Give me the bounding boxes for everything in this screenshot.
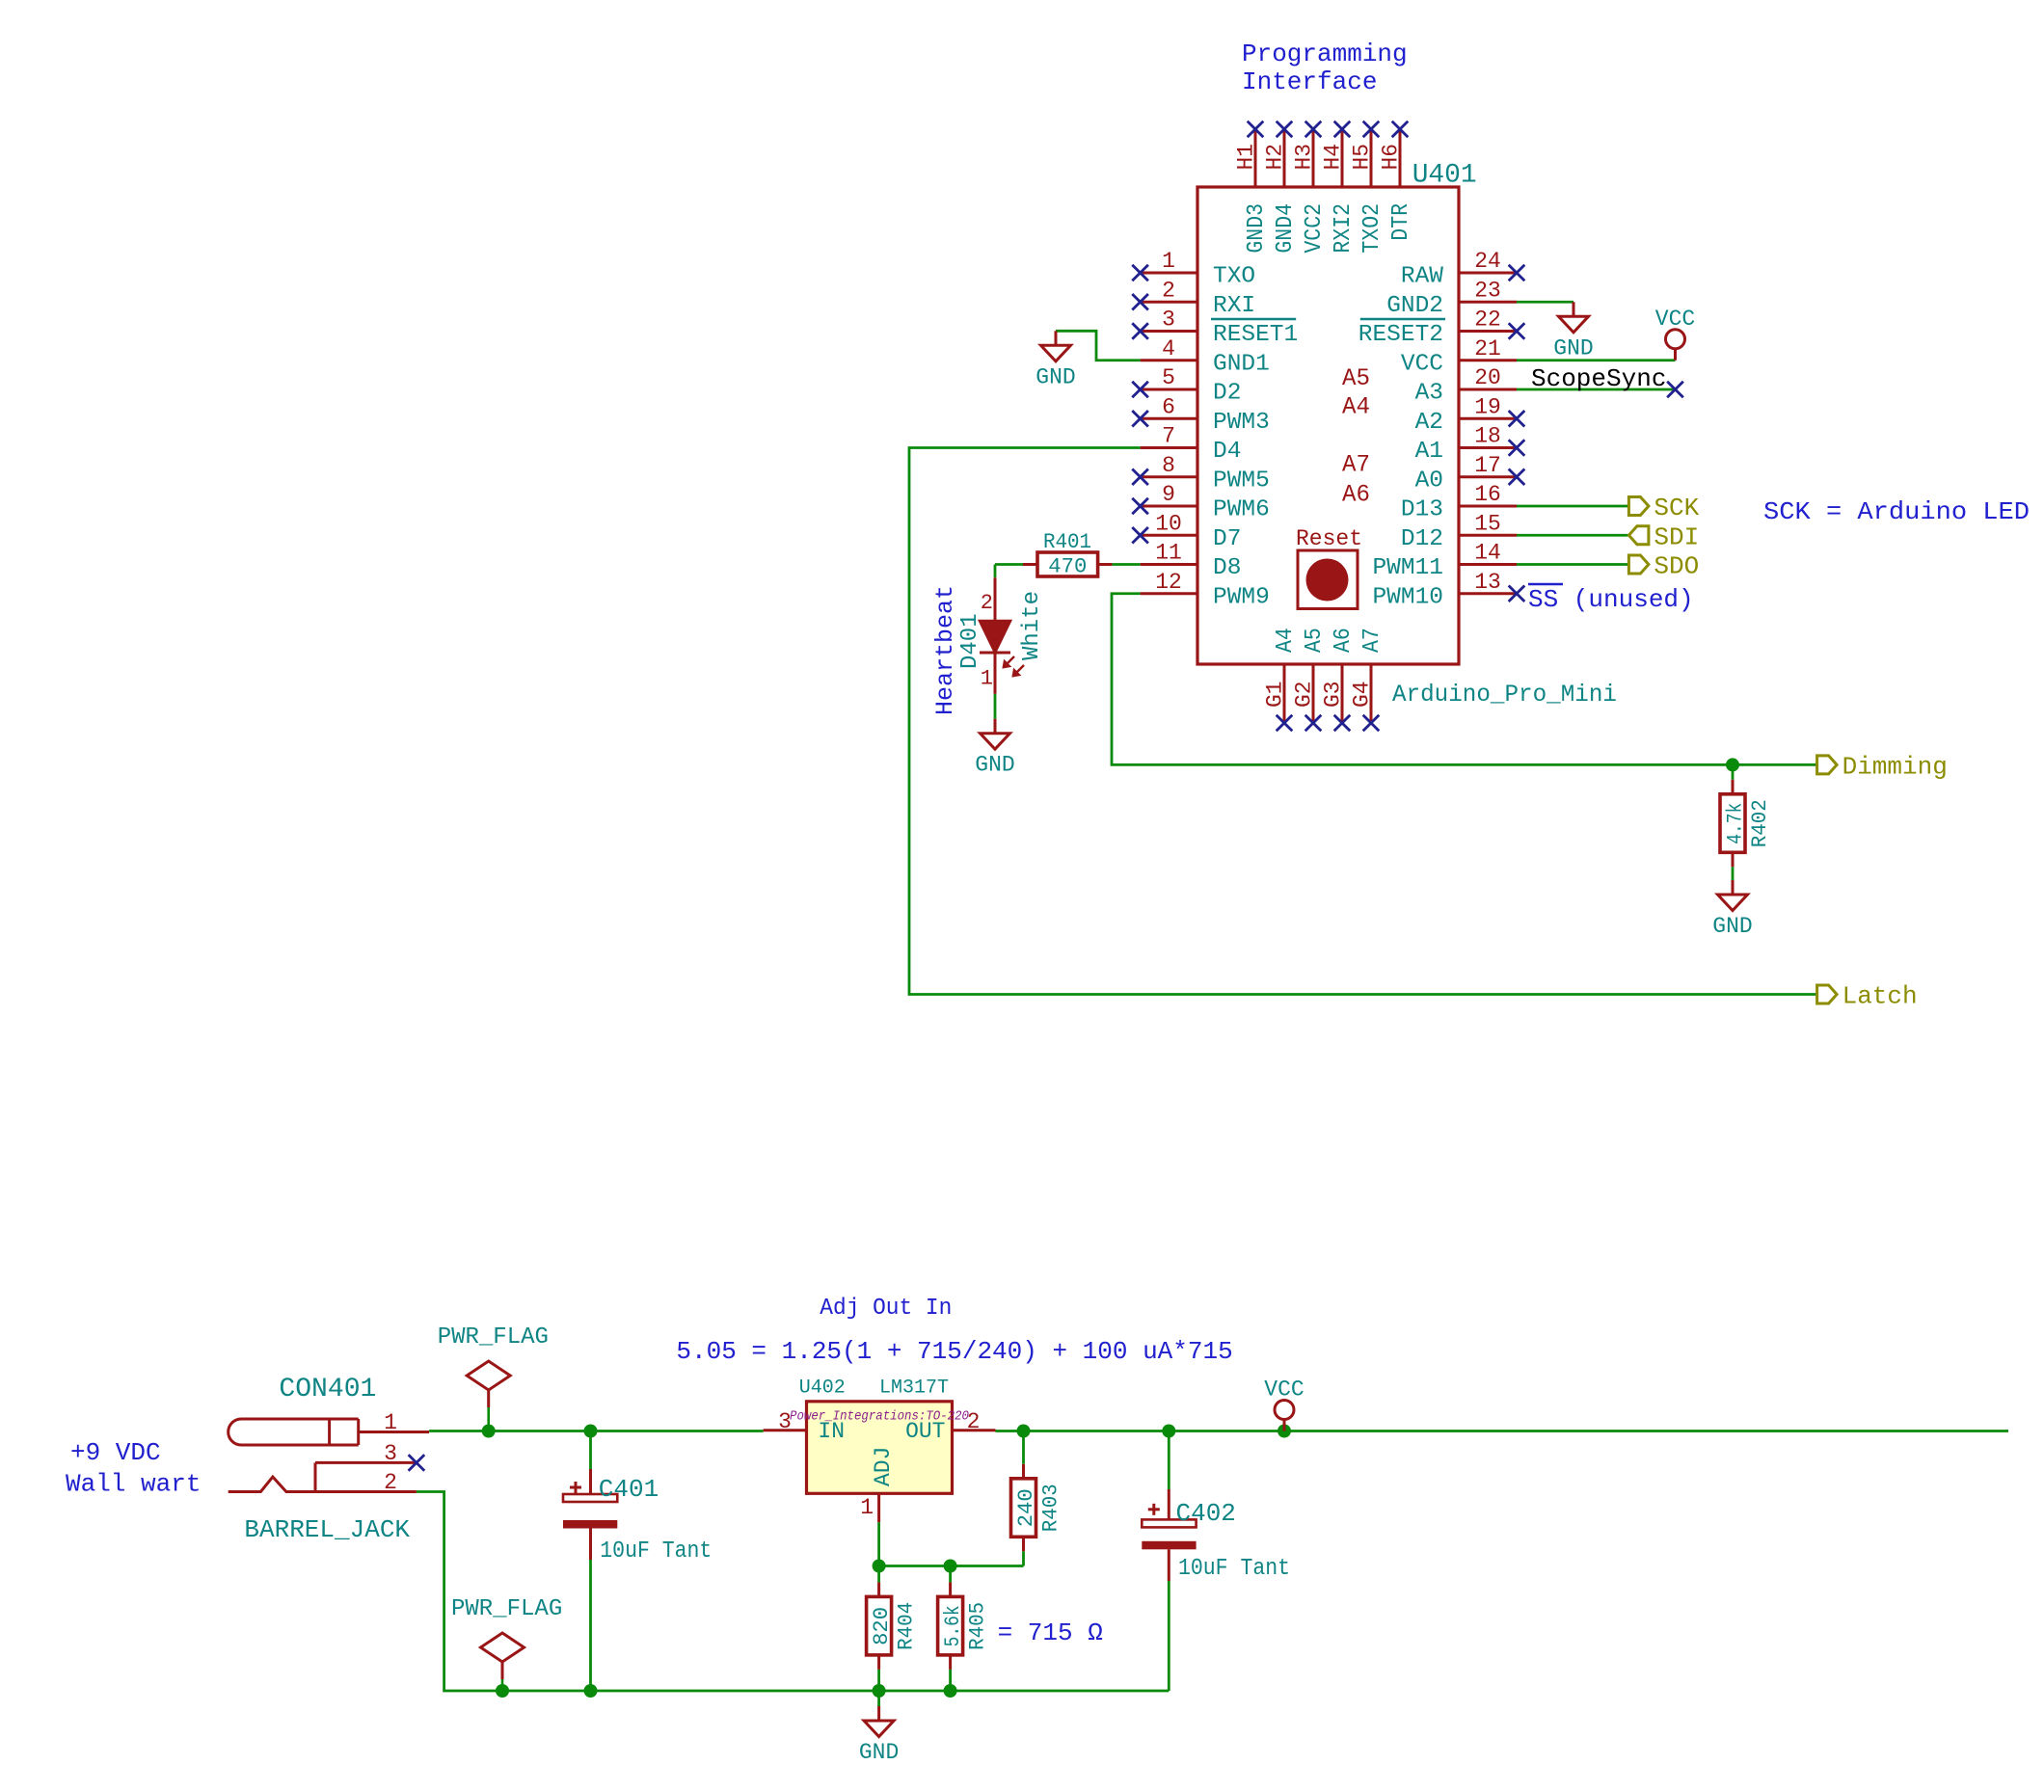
VCC power symbol top bbox=[1655, 307, 1695, 361]
U401 pin 3 RESET1 (left) bbox=[1132, 308, 1298, 349]
svg-text:DTR: DTR bbox=[1388, 203, 1414, 241]
junction at R403 bbox=[1017, 1425, 1031, 1438]
svg-text:8: 8 bbox=[1162, 453, 1175, 478]
svg-text:G1: G1 bbox=[1263, 682, 1288, 709]
svg-text:A1: A1 bbox=[1415, 439, 1443, 465]
svg-text:ADJ: ADJ bbox=[871, 1447, 896, 1486]
svg-text:GND2: GND2 bbox=[1386, 293, 1443, 319]
svg-text:PWR_FLAG: PWR_FLAG bbox=[451, 1596, 562, 1622]
svg-text:A0: A0 bbox=[1415, 468, 1443, 494]
svg-text:SDO: SDO bbox=[1654, 552, 1699, 581]
U401 pin 16 D13 (right) bbox=[1401, 482, 1517, 523]
U401 pin 10 D7 (left) bbox=[1132, 511, 1241, 552]
svg-text:VCC: VCC bbox=[1264, 1377, 1304, 1403]
U401 pin 22 RESET2 (right) bbox=[1358, 308, 1525, 349]
junction at C401 ground bbox=[584, 1684, 598, 1698]
svg-text:10: 10 bbox=[1155, 511, 1182, 536]
wire ground rail to ground symbol bbox=[877, 1691, 880, 1706]
svg-text:VCC2: VCC2 bbox=[1302, 203, 1328, 254]
U401 pin 15 D12 (right) bbox=[1401, 511, 1517, 552]
wire net ScopeSync from pin 20 bbox=[1517, 388, 1676, 391]
junction ADJ node at R404 bbox=[873, 1560, 886, 1573]
svg-text:Latch: Latch bbox=[1842, 982, 1918, 1011]
junction at R405 ground bbox=[944, 1684, 957, 1698]
ground symbol at U401 pin 4 bbox=[1035, 331, 1075, 389]
svg-text:1: 1 bbox=[981, 667, 993, 691]
wire pin21 to VCC bbox=[1517, 359, 1676, 361]
svg-text:GND: GND bbox=[859, 1740, 899, 1765]
resistor R402 4.7k bbox=[1720, 780, 1772, 868]
svg-text:SDI: SDI bbox=[1654, 522, 1699, 551]
svg-text:11: 11 bbox=[1155, 541, 1182, 566]
U401 interior pad numbers A5 A4 A7 A6 bbox=[1342, 364, 1370, 509]
wire pin15 D12 to SDI bbox=[1517, 534, 1628, 537]
svg-text:H3: H3 bbox=[1292, 144, 1317, 171]
svg-text:820: 820 bbox=[870, 1607, 894, 1645]
svg-text:1: 1 bbox=[1162, 249, 1175, 274]
svg-text:BARREL_JACK: BARREL_JACK bbox=[244, 1515, 410, 1544]
svg-text:Heartbeat: Heartbeat bbox=[931, 585, 959, 715]
svg-text:3: 3 bbox=[778, 1409, 792, 1434]
svg-text:PWR_FLAG: PWR_FLAG bbox=[438, 1324, 549, 1351]
svg-text:D13: D13 bbox=[1401, 497, 1443, 523]
svg-text:10uF Tant: 10uF Tant bbox=[1178, 1556, 1290, 1582]
wire R401 to LED corner bbox=[995, 565, 1023, 578]
junction at PWR_FLAG ground bbox=[496, 1684, 509, 1698]
U401 pin 21 VCC (right) bbox=[1401, 336, 1517, 378]
svg-text:R404: R404 bbox=[895, 1602, 919, 1650]
U401 pin 8 PWM5 (left) bbox=[1132, 453, 1270, 495]
junction at R402 / Dimming bbox=[1726, 758, 1739, 771]
U401 pin G3 A6 (bottom) with no-connect bbox=[1321, 628, 1358, 731]
note: SCK = Arduino LED bbox=[1763, 497, 2030, 526]
svg-text:SCK: SCK bbox=[1654, 494, 1699, 522]
U401 pin 24 RAW (right) bbox=[1401, 249, 1524, 290]
svg-text:PWM5: PWM5 bbox=[1213, 468, 1270, 494]
junction at PWR_FLAG VIN bbox=[482, 1425, 496, 1438]
svg-text:6: 6 bbox=[1162, 394, 1175, 419]
svg-text:= 715 Ω: = 715 Ω bbox=[998, 1618, 1103, 1647]
svg-text:15: 15 bbox=[1474, 511, 1501, 536]
svg-text:RAW: RAW bbox=[1401, 264, 1443, 290]
svg-text:A6: A6 bbox=[1331, 628, 1357, 653]
svg-text:240: 240 bbox=[1014, 1488, 1038, 1527]
wire C401 to ground rail bbox=[589, 1560, 592, 1691]
hierarchical label SCK bbox=[1628, 494, 1699, 522]
svg-text:TXO2: TXO2 bbox=[1359, 203, 1385, 254]
svg-text:SCK = Arduino LED: SCK = Arduino LED bbox=[1763, 497, 2030, 526]
svg-text:H4: H4 bbox=[1321, 144, 1346, 171]
junction at C401 bbox=[584, 1425, 598, 1438]
svg-text:23: 23 bbox=[1474, 278, 1501, 303]
wire pin12 PWM9 to Dimming bbox=[1112, 594, 1817, 765]
U401 pin 20 A3 (right) bbox=[1415, 365, 1517, 407]
svg-text:R403: R403 bbox=[1039, 1484, 1063, 1532]
U401 pin G1 A4 (bottom) with no-connect bbox=[1263, 628, 1300, 731]
resistor R405 5.6k bbox=[938, 1582, 990, 1670]
svg-text:PWM3: PWM3 bbox=[1213, 410, 1270, 436]
U401 pin 6 PWM3 (left) bbox=[1132, 394, 1270, 436]
svg-text:Dimming: Dimming bbox=[1842, 752, 1948, 781]
svg-text:RESET2: RESET2 bbox=[1358, 322, 1443, 348]
note: formula 5.05 bbox=[676, 1337, 1232, 1366]
svg-text:PWM11: PWM11 bbox=[1372, 555, 1443, 581]
svg-text:D12: D12 bbox=[1401, 526, 1443, 552]
wire OUT junction to R403 bbox=[1022, 1431, 1025, 1464]
svg-text:A4: A4 bbox=[1342, 392, 1370, 420]
svg-text:14: 14 bbox=[1474, 541, 1501, 566]
svg-text:Programming: Programming bbox=[1242, 40, 1408, 68]
hierarchical label Latch bbox=[1817, 982, 1918, 1011]
wire pin16 D13 to SCK bbox=[1517, 505, 1628, 508]
hierarchical label SDI bbox=[1628, 522, 1699, 551]
ground symbol at U401 pin 23 bbox=[1553, 302, 1593, 361]
wire junction to R402 bbox=[1732, 764, 1735, 779]
svg-text:D8: D8 bbox=[1213, 555, 1241, 581]
svg-text:18: 18 bbox=[1474, 424, 1501, 449]
ground symbol at D401 bbox=[975, 719, 1014, 778]
wire pin23 GND2 to ground bbox=[1517, 301, 1573, 304]
U401 pin H4 RXI2 (top) with no-connect bbox=[1321, 121, 1358, 254]
svg-text:H2: H2 bbox=[1263, 144, 1288, 171]
U401 pin 7 D4 (left) bbox=[1141, 424, 1242, 466]
svg-text:16: 16 bbox=[1474, 482, 1501, 507]
svg-text:5.6k: 5.6k bbox=[941, 1605, 965, 1646]
svg-text:9: 9 bbox=[1162, 482, 1175, 507]
svg-text:H6: H6 bbox=[1379, 144, 1404, 171]
svg-text:A6: A6 bbox=[1342, 481, 1370, 509]
U401 pin 18 A1 (right) bbox=[1415, 424, 1525, 466]
svg-text:OUT: OUT bbox=[905, 1419, 945, 1444]
svg-text:RXI: RXI bbox=[1213, 293, 1255, 319]
svg-text:21: 21 bbox=[1474, 336, 1501, 361]
svg-text:G3: G3 bbox=[1321, 682, 1346, 709]
svg-text:7: 7 bbox=[1162, 424, 1175, 449]
note: Adj Out In bbox=[820, 1296, 952, 1322]
U401 pin H6 DTR (top) with no-connect bbox=[1379, 121, 1415, 241]
note: Programming Interface text bbox=[1242, 40, 1408, 96]
resistor R404 820 bbox=[867, 1582, 919, 1670]
svg-text:RXI2: RXI2 bbox=[1331, 203, 1357, 254]
svg-text:4: 4 bbox=[1162, 336, 1175, 361]
svg-text:5: 5 bbox=[1162, 365, 1175, 390]
svg-text:A5: A5 bbox=[1302, 628, 1328, 653]
note: +9 VDC Wall wart bbox=[66, 1438, 201, 1499]
svg-text:2: 2 bbox=[967, 1409, 981, 1434]
svg-text:A4: A4 bbox=[1273, 628, 1299, 653]
svg-text:20: 20 bbox=[1474, 365, 1501, 390]
svg-text:H1: H1 bbox=[1234, 144, 1259, 171]
svg-text:2: 2 bbox=[1162, 278, 1175, 303]
svg-text:PWM9: PWM9 bbox=[1213, 584, 1270, 610]
wire pin14 PWM11 to SDO bbox=[1517, 563, 1628, 566]
U401 pin 9 PWM6 (left) bbox=[1132, 482, 1270, 523]
capacitor C402 10uF Tant bbox=[1142, 1431, 1290, 1583]
U401 pin 13 PWM10 (right) bbox=[1372, 570, 1524, 611]
connector CON401 BARREL_JACK bbox=[229, 1375, 429, 1544]
svg-text:Interface: Interface bbox=[1242, 67, 1377, 96]
wire VIN rail from CON401 pin 1 to U402 IN bbox=[429, 1430, 763, 1432]
svg-text:1: 1 bbox=[860, 1495, 874, 1520]
VCC power symbol bottom bbox=[1264, 1377, 1304, 1431]
U401 pin H1 GND3 (top) with no-connect bbox=[1234, 121, 1271, 254]
svg-text:VCC: VCC bbox=[1401, 351, 1443, 377]
svg-text:GND: GND bbox=[1035, 364, 1075, 389]
svg-text:A5: A5 bbox=[1342, 364, 1370, 392]
U401 pin 11 D8 (left) bbox=[1141, 541, 1242, 582]
U401 pin 14 PWM11 (right) bbox=[1372, 541, 1517, 582]
svg-text:Adj Out In: Adj Out In bbox=[820, 1296, 952, 1322]
IC U401 Arduino_Pro_Mini body bbox=[1197, 161, 1617, 709]
svg-text:GND: GND bbox=[1712, 914, 1752, 939]
svg-text:17: 17 bbox=[1474, 453, 1501, 478]
svg-text:A7: A7 bbox=[1359, 628, 1385, 653]
wire pin7 D4 to Latch bbox=[909, 448, 1817, 995]
wire ADJ node segment bbox=[879, 1565, 951, 1567]
wire R403 to ADJ node bbox=[951, 1551, 1024, 1565]
svg-text:IN: IN bbox=[818, 1419, 845, 1444]
U401 pin 5 D2 (left) bbox=[1132, 365, 1241, 407]
svg-text:D2: D2 bbox=[1213, 381, 1241, 407]
svg-text:ScopeSync: ScopeSync bbox=[1531, 364, 1666, 393]
LED D401 White Heartbeat bbox=[931, 577, 1045, 715]
svg-text:RESET1: RESET1 bbox=[1213, 322, 1298, 348]
svg-text:Reset: Reset bbox=[1296, 526, 1362, 551]
junction at R404 ground bbox=[873, 1684, 886, 1698]
ground symbol at ground rail bbox=[859, 1706, 899, 1765]
svg-text:10uF Tant: 10uF Tant bbox=[600, 1538, 712, 1565]
svg-text:U402: U402 bbox=[799, 1377, 846, 1400]
U401 pin 4 GND1 (left) bbox=[1141, 336, 1270, 378]
svg-text:GND: GND bbox=[1553, 335, 1593, 361]
svg-text:PWM6: PWM6 bbox=[1213, 497, 1270, 523]
U401 pin 12 PWM9 (left) bbox=[1141, 570, 1270, 611]
svg-text:19: 19 bbox=[1474, 394, 1501, 419]
svg-text:1: 1 bbox=[384, 1410, 397, 1435]
wire ADJ node to R404 bbox=[877, 1566, 880, 1583]
svg-text:3: 3 bbox=[1162, 308, 1175, 333]
junction ADJ node at R405 bbox=[944, 1560, 957, 1573]
svg-text:A2: A2 bbox=[1415, 410, 1443, 436]
svg-text:470: 470 bbox=[1048, 555, 1087, 579]
svg-text:2: 2 bbox=[384, 1470, 397, 1495]
regulator U402 LM317T bbox=[764, 1377, 996, 1523]
svg-text:Arduino_Pro_Mini: Arduino_Pro_Mini bbox=[1392, 681, 1617, 709]
svg-text:TXO: TXO bbox=[1213, 264, 1255, 290]
U401 pin 2 RXI (left) bbox=[1132, 278, 1255, 319]
svg-text:R402: R402 bbox=[1748, 799, 1772, 847]
wire U402 ADJ pin to ADJ node bbox=[877, 1522, 880, 1565]
svg-text:D401: D401 bbox=[957, 613, 983, 669]
svg-text:SS (unused): SS (unused) bbox=[1528, 585, 1694, 614]
svg-text:R405: R405 bbox=[966, 1602, 990, 1650]
U401 pin G2 A5 (bottom) with no-connect bbox=[1292, 628, 1329, 731]
wire C402 to ground rail corner bbox=[1168, 1581, 1170, 1691]
svg-text:A3: A3 bbox=[1415, 381, 1443, 407]
svg-text:D7: D7 bbox=[1213, 526, 1241, 552]
svg-text:CON401: CON401 bbox=[279, 1375, 376, 1404]
svg-text:G4: G4 bbox=[1350, 682, 1375, 709]
junction at VCC stub bbox=[1277, 1425, 1291, 1438]
svg-text:13: 13 bbox=[1474, 570, 1501, 595]
resistor R403 240 bbox=[1011, 1464, 1063, 1552]
U401 pin H5 TXO2 (top) with no-connect bbox=[1350, 121, 1386, 254]
svg-text:D4: D4 bbox=[1213, 439, 1241, 465]
svg-text:2: 2 bbox=[981, 591, 993, 615]
net label ScopeSync bbox=[1531, 364, 1666, 393]
hierarchical label SDO bbox=[1628, 552, 1699, 581]
U401 pin G4 A7 (bottom) with no-connect bbox=[1350, 628, 1386, 731]
svg-text:H5: H5 bbox=[1350, 144, 1375, 171]
power flag on ground bbox=[451, 1596, 562, 1691]
capacitor C401 10uF Tant bbox=[563, 1431, 712, 1565]
note: = 715 ohms bbox=[998, 1618, 1103, 1647]
svg-text:24: 24 bbox=[1474, 249, 1501, 274]
wire pin11 D8 to R401 bbox=[1112, 563, 1140, 566]
svg-text:Wall wart: Wall wart bbox=[66, 1470, 201, 1499]
note: SS (unused) at pin 13 bbox=[1528, 584, 1694, 614]
svg-text:C402: C402 bbox=[1176, 1499, 1236, 1528]
svg-text:U401: U401 bbox=[1412, 161, 1477, 191]
svg-text:22: 22 bbox=[1474, 308, 1501, 333]
svg-text:GND4: GND4 bbox=[1273, 203, 1299, 254]
svg-text:C401: C401 bbox=[599, 1475, 659, 1504]
resistor R401 470 bbox=[1023, 530, 1112, 579]
wire ground rail bbox=[417, 1492, 1169, 1692]
power flag on VIN bbox=[438, 1324, 549, 1431]
svg-text:GND: GND bbox=[975, 753, 1014, 778]
svg-text:PWM10: PWM10 bbox=[1372, 584, 1443, 610]
svg-text:5.05 = 1.25(1 + 715/240) + 100: 5.05 = 1.25(1 + 715/240) + 100 uA*715 bbox=[676, 1337, 1232, 1366]
no-connect at ScopeSync wire end bbox=[1667, 382, 1683, 398]
no-connect at CON401 pin 3 bbox=[409, 1455, 425, 1471]
svg-text:GND1: GND1 bbox=[1213, 351, 1270, 377]
wire pin4 GND1 to ground bbox=[1056, 331, 1141, 360]
U401 pin 17 A0 (right) bbox=[1415, 453, 1525, 495]
wire LED cathode to ground bbox=[994, 694, 997, 719]
wire VCC rail from U402 OUT to right edge bbox=[996, 1430, 2009, 1432]
U401 pin H2 GND4 (top) with no-connect bbox=[1263, 121, 1300, 254]
junction at C402 bbox=[1162, 1425, 1175, 1438]
U401 Reset button symbol bbox=[1296, 526, 1362, 609]
svg-text:3: 3 bbox=[384, 1441, 397, 1466]
svg-text:G2: G2 bbox=[1292, 682, 1317, 709]
U401 pin 23 GND2 (right) bbox=[1386, 278, 1517, 319]
svg-text:White: White bbox=[1019, 591, 1045, 660]
wire R405 to ground rail bbox=[949, 1670, 952, 1691]
svg-text:R401: R401 bbox=[1043, 530, 1091, 554]
U401 pin H3 VCC2 (top) with no-connect bbox=[1292, 121, 1329, 254]
svg-text:A7: A7 bbox=[1342, 451, 1370, 479]
wire ADJ node to R405 bbox=[949, 1566, 952, 1583]
svg-text:12: 12 bbox=[1155, 570, 1182, 595]
svg-text:4.7k: 4.7k bbox=[1724, 803, 1748, 844]
wire R402 to ground bbox=[1732, 867, 1735, 880]
hierarchical label Dimming bbox=[1817, 752, 1948, 781]
U401 pin 1 TXO (left) bbox=[1132, 249, 1255, 290]
svg-text:VCC: VCC bbox=[1655, 307, 1695, 332]
ground symbol at R402 bbox=[1712, 880, 1752, 939]
svg-text:GND3: GND3 bbox=[1244, 203, 1270, 254]
svg-text:LM317T: LM317T bbox=[879, 1377, 949, 1400]
U401 pin 19 A2 (right) bbox=[1415, 394, 1525, 436]
svg-text:+9 VDC: +9 VDC bbox=[70, 1438, 161, 1467]
wire R404 to ground rail bbox=[877, 1670, 880, 1691]
